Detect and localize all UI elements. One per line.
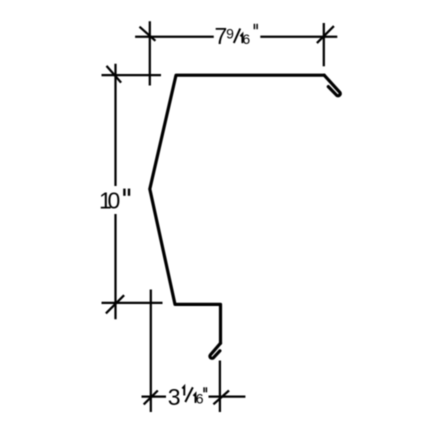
bottom dim fraction denominator 1 — [193, 394, 195, 403]
inch mark of 3 1/16 — [203, 387, 205, 392]
top dimension line left segment — [135, 36, 214, 38]
bottom dim right extension line — [219, 361, 221, 413]
top dimension text 7 9/16" — [215, 23, 258, 49]
left dimension text 10" — [99, 188, 129, 214]
svg-text:0: 0 — [107, 188, 120, 214]
left dim bottom extension line — [102, 302, 163, 304]
top dim right extension line — [323, 23, 325, 66]
top dim left extension line — [149, 21, 151, 85]
top hem (open hem at right end of top face) — [324, 75, 340, 96]
left dimension line upper segment — [114, 64, 116, 186]
fraction slash of 7 9/16 — [234, 29, 240, 44]
bottom dim right tick — [213, 391, 229, 405]
dimension graphics — [102, 21, 338, 412]
inch mark of 10 — [123, 189, 125, 196]
bottom dim fraction numerator 1 — [182, 386, 184, 395]
top dim fraction denominator 1 — [240, 34, 242, 43]
bottom dimension line left segment — [142, 395, 167, 397]
svg-text:3: 3 — [168, 384, 181, 410]
svg-text:9: 9 — [226, 25, 234, 41]
bottom hem (open hem at bottom of drop leg) — [210, 343, 221, 358]
fraction slash of 3 1/16 — [185, 387, 193, 402]
bottom dim left extension line — [150, 290, 152, 413]
left dim bottom tick — [106, 295, 124, 313]
bottom dimension text 3 1/16" — [168, 384, 207, 410]
profile body: top face, left face with bend, bottom face, bottom drop — [150, 75, 324, 343]
bottom dim left tick — [144, 391, 158, 405]
top dimension line right segment — [260, 36, 337, 38]
top dim left tick — [140, 27, 156, 41]
inch mark of 7 9/16 — [253, 24, 255, 29]
bottom dimension line right segment — [209, 395, 246, 397]
left dim top tick — [107, 66, 122, 83]
top dim right tick — [317, 26, 334, 43]
left dim top extension line — [102, 74, 162, 76]
left dimension line lower segment — [114, 214, 116, 319]
profile outline (trim cross-section) — [150, 75, 340, 358]
svg-text:6: 6 — [242, 31, 250, 47]
svg-text:6: 6 — [196, 390, 204, 406]
